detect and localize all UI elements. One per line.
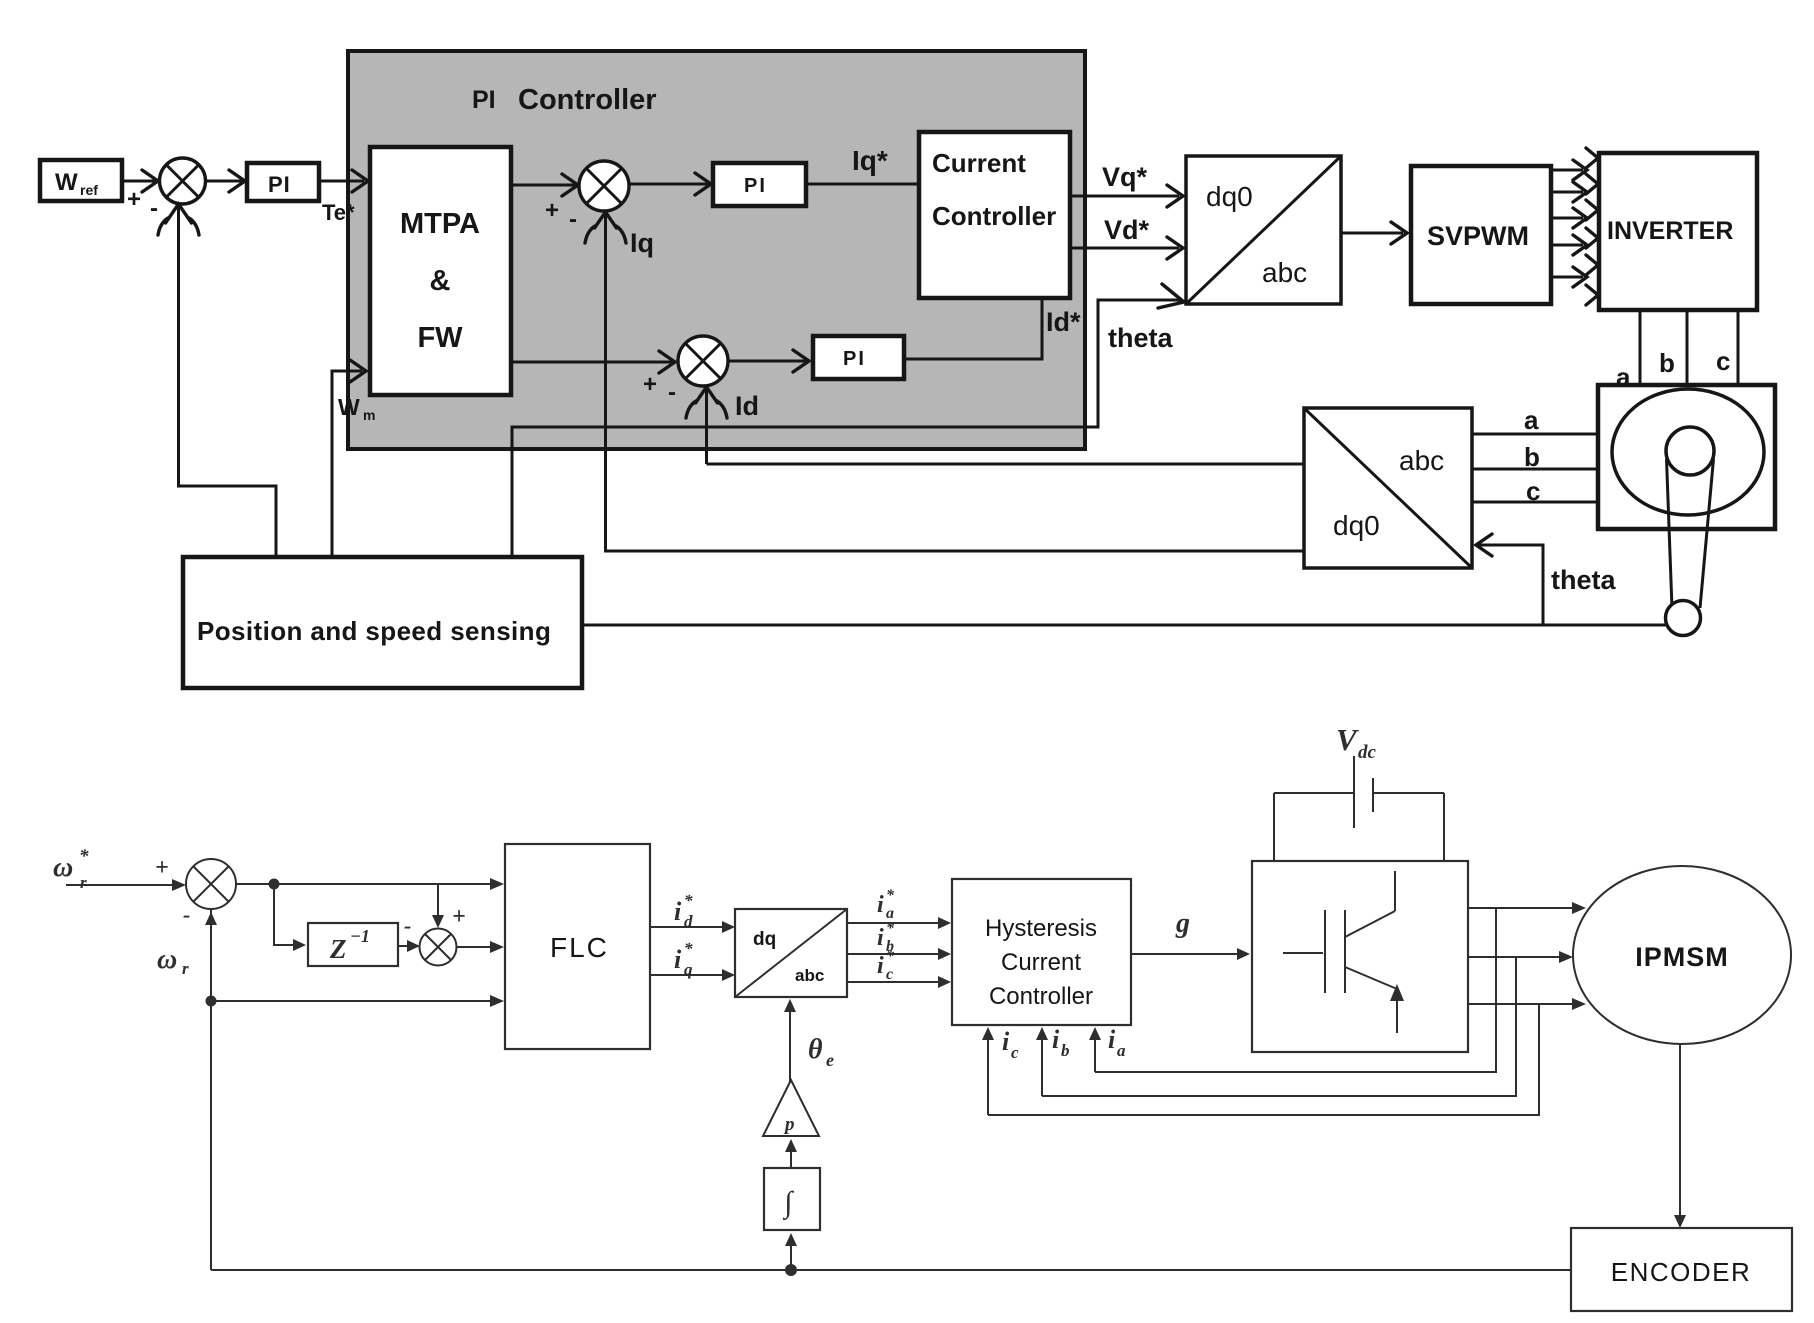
wire S2 to PI2 [628, 173, 712, 195]
svg-text:d: d [684, 912, 693, 931]
svg-text:Id: Id [735, 391, 759, 421]
svg-text:V: V [1336, 722, 1359, 757]
svg-text:−1: −1 [350, 926, 370, 946]
wires i_c i_b i_a into hysteresis [982, 1025, 1126, 1115]
svg-text:i: i [674, 945, 682, 974]
svg-text:+: + [155, 855, 169, 881]
svg-text:W: W [55, 169, 78, 196]
block dq/abc [735, 909, 847, 997]
svg-text:r: r [182, 959, 189, 978]
svg-text:i: i [1052, 1025, 1060, 1054]
wire S1 to PI1 [206, 170, 246, 192]
wire integrator to p [785, 1139, 797, 1168]
label omega_r [157, 944, 189, 978]
svg-text:-: - [150, 195, 158, 222]
svg-text:Z: Z [329, 934, 347, 964]
IGBT symbol [1283, 871, 1404, 1033]
svg-text:abc: abc [1399, 445, 1444, 476]
wire Vd* [1070, 215, 1183, 259]
IPMSM motor [1573, 866, 1791, 1044]
wire Z-1 to S5 [398, 913, 420, 952]
wire PI2 to Current Controller [806, 183, 919, 186]
svg-text:ω: ω [157, 944, 177, 975]
wire S4 to FLC [236, 878, 504, 890]
svg-text:Controller: Controller [518, 84, 657, 116]
motor phase wires to abc [1472, 405, 1598, 506]
block Position and speed sensing [183, 557, 582, 688]
svg-text:PI: PI [268, 172, 291, 197]
wire Id feedback arrow into S3 [686, 387, 759, 464]
svg-text:*: * [886, 887, 895, 904]
svg-text:Iq: Iq [630, 228, 654, 258]
svg-text:i: i [1108, 1025, 1116, 1054]
svg-text:-: - [404, 913, 411, 938]
wire branch to Z-1 [274, 884, 306, 951]
wire S5 to FLC [457, 941, 505, 953]
block MTPA & FW [370, 147, 511, 395]
wire bottom feedback from encoder [211, 1269, 1571, 1271]
svg-text:ENCODER: ENCODER [1611, 1257, 1752, 1287]
gate signal bundle SVPWM to INVERTER [1553, 148, 1598, 305]
svg-text:-: - [668, 379, 676, 406]
svg-text:Iq*: Iq* [852, 145, 888, 176]
block SVPWM [1411, 166, 1551, 304]
svg-text:b: b [1659, 348, 1675, 378]
svg-text:∫: ∫ [782, 1186, 794, 1221]
svg-text:a: a [1117, 1041, 1126, 1060]
summing junction S4 [183, 859, 236, 927]
svg-text:theta: theta [1551, 565, 1616, 595]
svg-text:+: + [127, 186, 141, 213]
wire MTPA to S2 [511, 174, 578, 196]
block abc/dq0 lower [1304, 408, 1472, 568]
svg-text:Te*: Te* [322, 200, 355, 225]
summing junction S3 [643, 336, 728, 406]
svg-text:MTPA: MTPA [400, 208, 480, 240]
svg-text:abc: abc [795, 966, 824, 985]
wires inverter to IPMSM [1468, 902, 1586, 1010]
svg-text:c: c [1716, 346, 1730, 376]
svg-text:+: + [545, 197, 559, 224]
svg-text:FLC: FLC [550, 932, 609, 963]
svg-text:dq0: dq0 [1333, 510, 1380, 541]
PI Controller gray container [348, 51, 1085, 449]
block PI3 [813, 336, 904, 379]
wire S3 to PI3 [727, 350, 810, 372]
svg-text:&: & [430, 265, 451, 297]
svg-text:a: a [1524, 405, 1539, 435]
wire omega feedback with node n2 [205, 909, 504, 1270]
svg-text:theta: theta [1108, 323, 1173, 353]
svg-text:dq: dq [753, 929, 776, 950]
svg-text:p: p [783, 1114, 795, 1135]
svg-text:i: i [877, 925, 884, 951]
block IGBT inverter [1252, 861, 1468, 1052]
svg-text:c: c [1526, 476, 1540, 506]
wire Wm to MTPA [332, 360, 375, 557]
svg-text:Controller: Controller [989, 983, 1093, 1010]
svg-text:*: * [684, 891, 693, 910]
block integrator [764, 1168, 820, 1230]
svg-text:*: * [886, 948, 895, 965]
wires current feedback from inverter outputs [988, 908, 1539, 1115]
label Iq* [852, 145, 888, 176]
wire tap into S5 [432, 884, 444, 928]
svg-text:dc: dc [1358, 742, 1377, 763]
svg-text:b: b [1524, 442, 1540, 472]
wire i_d* [650, 891, 735, 933]
block PI2 [713, 163, 806, 206]
block Z-1 [308, 923, 398, 966]
svg-text:*: * [886, 920, 895, 937]
wire feedback to integrator [785, 1233, 797, 1276]
label omega_r* [53, 846, 89, 892]
wire MTPA to S3 [511, 351, 675, 373]
svg-text:INVERTER: INVERTER [1607, 217, 1733, 245]
wire Iq feedback from abc/dq0 [606, 540, 1305, 551]
wire S1 feedback from position sensing [158, 204, 276, 557]
svg-text:Hysteresis: Hysteresis [985, 915, 1097, 942]
phase wires a b c from inverter [1616, 310, 1738, 412]
wire shaft to encoder [1674, 1044, 1686, 1228]
wire Iq feedback arrow into S2 [585, 212, 654, 551]
svg-text:Controller: Controller [932, 201, 1056, 231]
block Current Controller [919, 132, 1070, 298]
svg-text:Position and speed sensing: Position and speed sensing [197, 616, 551, 646]
svg-text:SVPWM: SVPWM [1427, 221, 1529, 251]
svg-text:FW: FW [417, 322, 463, 354]
summing junction S2 [545, 161, 629, 233]
block W_ref [40, 160, 122, 201]
svg-text:e: e [826, 1050, 834, 1070]
svg-text:Current: Current [1001, 949, 1081, 976]
wire dq0 to SVPWM [1341, 222, 1407, 244]
svg-text:*: * [684, 939, 693, 958]
wire theta tap to abc/dq0 [1476, 534, 1616, 625]
svg-text:PI: PI [744, 175, 767, 197]
wire g to inverter [1131, 908, 1250, 960]
wire Id feedback from abc/dq0 [707, 463, 1305, 466]
svg-text:dq0: dq0 [1206, 181, 1253, 212]
svg-text:ω: ω [53, 852, 73, 883]
block PI1 [247, 163, 319, 201]
svg-text:θ: θ [808, 1034, 823, 1065]
svg-text:PI: PI [472, 86, 496, 114]
svg-text:g: g [1175, 908, 1190, 939]
svg-text:*: * [79, 846, 89, 867]
block dq0/abc [1186, 156, 1341, 304]
svg-text:i: i [1002, 1027, 1010, 1056]
svg-text:b: b [1061, 1041, 1070, 1060]
node dot n1 [269, 879, 280, 890]
svg-text:IPMSM: IPMSM [1635, 942, 1729, 972]
wire W_ref to S1 [122, 170, 158, 192]
svg-text:m: m [363, 407, 375, 423]
pole pairs triangle p [763, 1080, 819, 1136]
svg-text:PI: PI [843, 348, 866, 370]
motor block [1598, 385, 1775, 636]
svg-text:c: c [1011, 1043, 1019, 1062]
svg-text:abc: abc [1262, 257, 1307, 288]
svg-text:W: W [338, 394, 360, 420]
block ENCODER [1571, 1228, 1792, 1311]
svg-text:+: + [643, 371, 657, 398]
svg-text:+: + [452, 904, 466, 930]
svg-text:r: r [80, 873, 87, 892]
svg-text:Id*: Id* [1046, 307, 1081, 337]
svg-text:ref: ref [80, 182, 98, 198]
wire i_q* [650, 939, 735, 981]
battery V_dc [1274, 722, 1444, 861]
wire encoder pulley to position sensing [582, 624, 1666, 627]
svg-text:Current: Current [932, 148, 1026, 178]
svg-text:-: - [569, 206, 577, 233]
svg-text:c: c [886, 966, 893, 983]
wire theta_e into dq/abc [784, 999, 834, 1082]
summing junction S5 [420, 904, 466, 966]
title PI Controller [472, 84, 657, 116]
block FLC [505, 844, 650, 1049]
wire theta from position sensing to dq0 [512, 284, 1184, 557]
wire PI1 to MTPA with Te* [319, 170, 368, 225]
block INVERTER [1599, 153, 1757, 310]
svg-text:Vq*: Vq* [1102, 162, 1148, 192]
svg-text:-: - [183, 902, 190, 927]
svg-text:i: i [674, 897, 682, 926]
svg-text:q: q [684, 960, 693, 979]
svg-text:Vd*: Vd* [1104, 215, 1150, 245]
svg-text:i: i [877, 892, 884, 918]
wire omega ref input [66, 855, 186, 891]
wire Id* from PI3 to Current Controller [904, 298, 1081, 359]
wire Vq* [1070, 162, 1183, 207]
wires i_a* i_b* i_c* [847, 887, 951, 988]
block Hysteresis Current Controller [952, 879, 1131, 1025]
summing junction S1 [127, 158, 206, 222]
svg-text:i: i [877, 953, 884, 979]
